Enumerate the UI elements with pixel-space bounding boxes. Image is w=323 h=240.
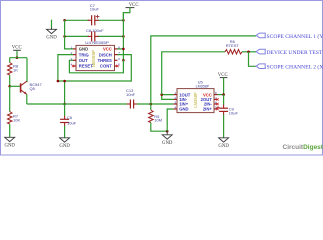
wire top horizontal left segment <box>65 19 89 21</box>
node junction top-right rail <box>122 19 125 22</box>
capacitor C6 <box>60 115 77 126</box>
wire U5 VCC pin to rail <box>218 94 224 96</box>
node junction cap branch bottom <box>63 103 66 106</box>
svg-text:10K: 10K <box>13 117 20 122</box>
node junction at U4 VCC pin <box>122 48 125 51</box>
ground GND below U5 <box>162 131 173 146</box>
wire top horizontal right segment <box>98 19 123 21</box>
wire to scope ch2 <box>249 52 257 67</box>
ground GND top-left <box>46 20 57 40</box>
wire emitter down <box>26 94 28 104</box>
power VCC left <box>12 46 22 60</box>
wire cap branch down to signal line <box>64 81 66 104</box>
pin 1OUT U5 pin1 <box>174 94 177 96</box>
ground GND below C6 <box>59 138 70 149</box>
wire TRIG loop to DISCH <box>58 55 131 81</box>
svg-text:OUT: OUT <box>79 58 88 63</box>
node junction DUT <box>247 51 250 54</box>
connector flag SCOPE CHANNEL 2 <box>256 63 323 70</box>
svg-text:LM358P: LM358P <box>193 92 198 108</box>
svg-text:GND: GND <box>4 143 15 148</box>
wire signal line right segment <box>137 103 174 105</box>
wire 1OUT feedback loop and net to R6 <box>162 95 174 100</box>
no-connect x 2OUT pin <box>216 98 218 100</box>
svg-text:1K: 1K <box>13 67 18 72</box>
svg-text:CircuitDigest: CircuitDigest <box>283 144 323 151</box>
svg-text:VCC: VCC <box>103 47 112 52</box>
CircuitDigest watermark <box>283 144 323 151</box>
node junction at R5 top <box>150 103 153 106</box>
border frame <box>1 1 323 156</box>
capacitor C13 <box>126 88 137 109</box>
svg-text:GND: GND <box>179 107 188 112</box>
svg-text:10uF: 10uF <box>229 110 239 115</box>
svg-text:RESET: RESET <box>79 64 93 69</box>
wire R6 to DUT flag <box>242 51 256 53</box>
capacitor C8 <box>86 28 104 41</box>
ground GND below C9 <box>218 138 229 149</box>
capacitor C7 <box>88 3 99 25</box>
svg-text:GND: GND <box>46 35 57 40</box>
connector flag DEVICE UNDER TEST <box>256 49 323 56</box>
svg-text:10nF: 10nF <box>126 92 136 97</box>
wire C6 top <box>64 104 66 116</box>
svg-text:DEVICE UNDER TEST: DEVICE UNDER TEST <box>267 50 323 56</box>
wire scope ch1 riser <box>151 36 256 104</box>
power VCC top <box>123 3 138 20</box>
wire C9 bottom to ground <box>223 115 225 138</box>
resistor R7 <box>8 112 21 125</box>
wire VCC box right to collector <box>26 58 29 82</box>
svg-text:THRES: THRES <box>98 58 112 63</box>
capacitor C9 <box>217 105 239 116</box>
power VCC right <box>218 73 228 95</box>
svg-text:TRIG: TRIG <box>79 52 89 57</box>
wire base <box>10 85 21 87</box>
node junction at U4 THRES pin <box>122 59 125 62</box>
IC U5 LM358P <box>174 80 218 113</box>
wire rail down to C9 <box>223 95 225 105</box>
wire right rail VCC <box>122 13 124 61</box>
svg-text:VCC: VCC <box>12 46 22 51</box>
node junction top-left rail <box>63 19 66 22</box>
IC U4 NE555P <box>71 40 121 70</box>
node junction mid-left rail <box>63 35 66 38</box>
node junction mid-right rail <box>122 35 125 38</box>
no-connect x 2IN+ pin <box>216 108 218 110</box>
svg-text:RTEST: RTEST <box>226 43 240 48</box>
pin VCC U4 pin8 <box>114 48 118 50</box>
svg-text:SCOPE CHANNEL 2 (X): SCOPE CHANNEL 2 (X) <box>267 63 323 70</box>
svg-text:GND: GND <box>218 144 229 149</box>
resistor R6 <box>225 39 242 54</box>
no-connect x CONT pin <box>116 65 118 67</box>
svg-text:DISCH: DISCH <box>99 52 112 57</box>
pin 1IN+ U5 pin3 <box>174 103 177 105</box>
node junction TRIG corner <box>57 80 60 83</box>
wire second horizontal right segment <box>98 35 123 37</box>
node junction 1OUT <box>160 93 163 96</box>
wire R7 to ground <box>9 124 11 137</box>
resistor R8 <box>8 63 19 76</box>
svg-text:2IN+: 2IN+ <box>203 107 213 112</box>
pin THRES U4 pin6 <box>114 59 118 61</box>
svg-text:10uF: 10uF <box>67 121 77 126</box>
wire C6 bottom to ground <box>64 126 66 138</box>
node junction cap branch top <box>63 80 66 83</box>
wire THRES riser to under-chip <box>69 60 123 73</box>
wire 1OUT up to R6 row <box>162 52 225 95</box>
svg-text:10M: 10M <box>154 118 162 123</box>
svg-text:GND: GND <box>79 46 88 51</box>
pin TRIG U4 pin2 <box>73 54 77 56</box>
wire node to R7 <box>9 86 11 111</box>
no-connect x 2IN- pin <box>216 103 218 105</box>
pin 2IN+ U5 pin5 <box>214 108 218 110</box>
svg-text:C6: C6 <box>67 115 73 120</box>
svg-text:Q5: Q5 <box>30 86 36 91</box>
svg-text:LM358P: LM358P <box>196 84 210 89</box>
connector flag SCOPE CHANNEL 1 <box>256 33 323 40</box>
wire into VCC pin of U4 <box>118 48 124 50</box>
resistor R5 <box>149 104 162 123</box>
pin CONT U4 pin5 <box>114 65 118 67</box>
svg-text:SCOPE CHANNEL 1 (Y): SCOPE CHANNEL 1 (Y) <box>267 33 323 40</box>
ground GND below R7 <box>4 137 15 148</box>
node junction U5 VCC <box>222 93 225 96</box>
svg-text:GND: GND <box>59 144 70 149</box>
svg-text:CONT: CONT <box>100 64 112 69</box>
wire R8 to base node <box>9 75 11 86</box>
wire to R8 <box>9 58 11 63</box>
svg-text:C8 100nF: C8 100nF <box>86 28 104 33</box>
wire VCC box top <box>10 57 27 59</box>
wire U5 GND pin down <box>167 109 173 131</box>
pin GND U5 pin4 <box>174 108 177 110</box>
wire R5 bottom to gnd node <box>151 123 167 132</box>
pin 2IN- U5 pin6 <box>214 103 218 105</box>
pin DISCH U4 pin7 <box>114 54 118 56</box>
pin 2OUT U5 pin7 <box>214 98 218 100</box>
node base junction <box>8 85 11 88</box>
svg-text:GND: GND <box>162 141 173 146</box>
no-connect x RESET pin <box>72 65 74 67</box>
pin 1IN- U5 pin2 <box>174 98 177 100</box>
pin VCC U5 pin8 <box>214 94 218 96</box>
wire second horizontal left segment <box>65 35 89 37</box>
svg-text:U4 NE555P: U4 NE555P <box>85 40 109 45</box>
pin RESET U4 pin4 <box>73 65 77 67</box>
transistor Q2 BC547 <box>21 81 43 94</box>
node junction U5 gnd <box>166 130 169 133</box>
pin OUT U4 pin3 <box>73 59 77 61</box>
pin GND U4 pin1 <box>73 48 77 50</box>
wire left rail <box>65 20 73 49</box>
svg-text:10uF: 10uF <box>90 7 100 12</box>
wire signal line left segment <box>27 103 127 105</box>
